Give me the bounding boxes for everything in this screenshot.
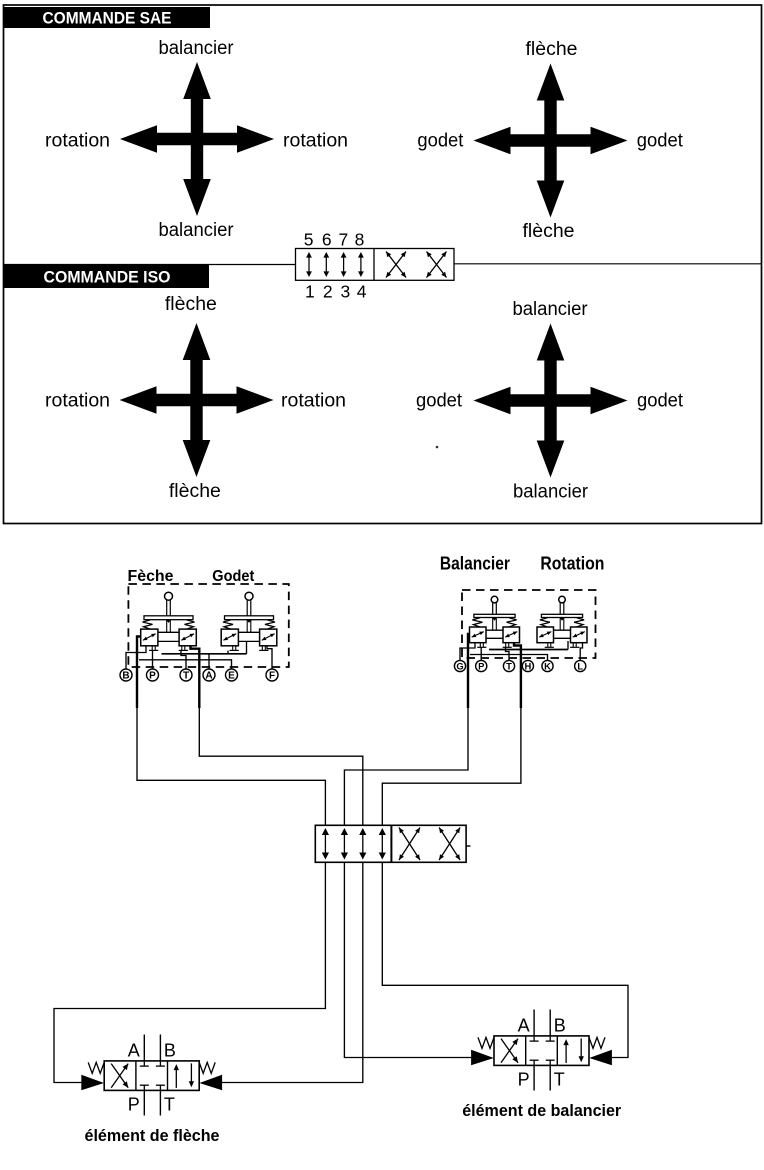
svg-text:godet: godet (637, 131, 684, 152)
crossed flow paths élément de balancier (501, 1039, 518, 1063)
svg-text:B: B (122, 671, 129, 682)
port G right assembly (454, 660, 465, 671)
port line B élément de flèche (159, 1035, 161, 1061)
wire pilot H down thick (514, 643, 521, 708)
joystick plate rotation (541, 614, 582, 620)
port L right assembly (575, 660, 586, 671)
spring left godet (223, 620, 233, 629)
pilot valve box left balancier (470, 627, 487, 647)
swivel block cross 1 (399, 828, 420, 861)
svg-text:P: P (478, 660, 484, 671)
svg-text:6: 6 (322, 230, 332, 250)
svg-text:T: T (183, 671, 189, 682)
svg-text:T: T (164, 1095, 175, 1115)
wire to port F (267, 646, 272, 670)
pilot valve box left flèche (141, 629, 159, 650)
wire to port T right (506, 647, 510, 661)
svg-text:balancier: balancier (159, 38, 235, 59)
port P left assembly (147, 669, 159, 682)
swivel block cross 2 (439, 828, 460, 861)
spring left élément de balancier (478, 1037, 494, 1048)
wire pilot G down thick (468, 634, 470, 708)
wire to port T left (181, 651, 186, 670)
svg-text:Godet: Godet (212, 568, 255, 585)
svg-text:E: E (228, 671, 235, 682)
wire to port E (139, 660, 232, 670)
pilot connector godet (238, 620, 259, 642)
wire bus right assembly 1 (489, 649, 568, 651)
valve body élément de flèche (104, 1061, 199, 1091)
wire to port P right (480, 647, 482, 661)
joystick knob balancier (491, 596, 498, 603)
joystick lever rotation (560, 602, 564, 614)
swivel joint block body (315, 825, 466, 862)
separator wire right (454, 263, 762, 265)
svg-text:L: L (577, 660, 583, 671)
port B left assembly (120, 669, 132, 682)
pilot connector rotation (554, 618, 571, 639)
svg-text:P: P (149, 671, 156, 682)
spring left rotation (540, 618, 550, 628)
port E left assembly (226, 669, 238, 682)
wire bus riser (246, 641, 248, 653)
svg-text:balancier: balancier (513, 482, 589, 503)
svg-text:balancier: balancier (513, 299, 589, 320)
svg-text:godet: godet (637, 391, 684, 412)
wire 4 block to balancier valve right pilot (382, 862, 628, 1057)
separator wire left (4, 264, 296, 266)
joystick knob rotation (559, 596, 566, 603)
svg-text:COMMANDE SAE: COMMANDE SAE (43, 10, 172, 28)
svg-text:F: F (269, 671, 275, 682)
port F left assembly (266, 669, 278, 682)
svg-text:A: A (518, 1016, 530, 1036)
svg-text:3: 3 (341, 282, 351, 302)
joystick plate balancier (474, 614, 515, 620)
spring right balancier (507, 618, 517, 628)
port T left assembly (180, 669, 192, 682)
spring right élément de flèche (199, 1062, 215, 1073)
wire godet stub (227, 651, 229, 654)
pilot valve box left rotation (537, 627, 554, 647)
pilot valve box right flèche (179, 629, 197, 650)
svg-text:7: 7 (339, 230, 349, 250)
spring right élément de balancier (589, 1037, 605, 1048)
pilot connector flèche (158, 620, 179, 642)
svg-text:4: 4 (357, 282, 367, 302)
wire to port A (208, 654, 210, 670)
swivel valve top arrows (306, 252, 364, 277)
joystick plate godet (225, 616, 274, 623)
header bar COMMANDE SAE (3, 7, 210, 28)
svg-text:flèche: flèche (165, 294, 217, 315)
svg-text:1: 1 (305, 282, 315, 302)
pilot valve box left godet (221, 629, 239, 650)
joystick lever flèche (167, 599, 171, 616)
port H right assembly (522, 660, 533, 671)
svg-text:T: T (506, 660, 512, 671)
swivel valve top cross 1 (386, 252, 406, 278)
svg-text:COMMANDE ISO: COMMANDE ISO (44, 268, 171, 286)
swivel block stub (466, 845, 470, 847)
svg-text:flèche: flèche (169, 481, 221, 502)
svg-text:flèche: flèche (523, 221, 575, 242)
svg-text:P: P (518, 1070, 530, 1090)
wire 1 block to flèche valve left pilot (54, 862, 325, 1082)
parallel flow paths élément de flèche (174, 1063, 195, 1088)
svg-text:H: H (525, 660, 532, 671)
wire pilot A down thick (191, 646, 200, 708)
wire 2 block to balancier valve left pilot (344, 862, 471, 1057)
port line P élément de balancier (533, 1065, 535, 1090)
spring left balancier (472, 618, 482, 628)
pilot actuator right élément de flèche (199, 1075, 222, 1090)
swivel joint block arrows (322, 828, 386, 860)
crossed flow paths élément de flèche (111, 1064, 128, 1088)
direction cross ISO right (474, 324, 628, 478)
swivel valve top cross 2 (427, 252, 447, 278)
svg-text:flèche: flèche (526, 39, 578, 60)
wire to port L (580, 643, 582, 661)
header bar COMMANDE ISO (4, 265, 209, 289)
svg-text:5: 5 (304, 230, 314, 250)
direction cross ISO left (120, 323, 274, 477)
svg-text:P: P (128, 1095, 140, 1115)
svg-text:godet: godet (416, 391, 463, 412)
pilot assembly right enclosure (462, 590, 596, 658)
spring right flèche (185, 620, 195, 629)
valve body élément de balancier (494, 1036, 589, 1066)
wire to port K (470, 655, 548, 662)
wire 3 block to flèche valve right pilot (222, 862, 363, 1082)
port line T élément de balancier (549, 1065, 551, 1090)
pin numbers 5 6 7 8 (304, 230, 365, 250)
svg-text:godet: godet (417, 131, 464, 152)
wire pilot B down thick (137, 637, 141, 709)
joystick plate flèche (144, 616, 193, 623)
pilot assembly left enclosure (128, 584, 288, 667)
port P right assembly (476, 660, 487, 671)
svg-text:élément de flèche: élément de flèche (85, 1127, 220, 1145)
pilot actuator right élément de balancier (589, 1050, 612, 1065)
svg-text:Rotation: Rotation (540, 554, 604, 574)
swivel joint valve top body (296, 249, 455, 281)
svg-text:8: 8 (355, 230, 365, 250)
wire to port G (460, 643, 475, 661)
wire bus riser right (567, 641, 569, 650)
svg-text:rotation: rotation (45, 391, 110, 412)
pilot actuator left élément de flèche (81, 1075, 104, 1090)
pilot valve box right balancier (503, 627, 520, 647)
port T right assembly (503, 660, 514, 671)
port line B élément de balancier (549, 1010, 551, 1036)
pilot connector balancier (486, 618, 503, 639)
spring left flèche (143, 620, 153, 629)
blocked centre élément de balancier (530, 1036, 555, 1066)
pin numbers 1 2 3 4 (305, 282, 367, 302)
parallel flow paths élément de balancier (563, 1038, 584, 1063)
wire 1 pilotB to block (137, 706, 325, 825)
svg-text:B: B (554, 1016, 566, 1036)
wire 4 pilotH to block (382, 706, 521, 825)
spring left élément de flèche (88, 1062, 104, 1073)
blocked centre élément de flèche (140, 1061, 165, 1091)
svg-text:G: G (456, 660, 463, 671)
port line P élément de flèche (143, 1090, 145, 1115)
svg-text:balancier: balancier (159, 220, 235, 241)
wire to port P left (152, 651, 154, 670)
joystick knob godet (245, 592, 253, 600)
svg-text:K: K (544, 660, 551, 671)
wire bus left assembly 1 (162, 653, 247, 655)
direction cross SAE left (120, 62, 274, 216)
direction cross SAE right (474, 64, 628, 218)
svg-text:Balancier: Balancier (440, 554, 510, 574)
joystick lever godet (247, 599, 251, 616)
joystick knob flèche (165, 592, 173, 600)
pilot actuator left élément de balancier (471, 1050, 494, 1065)
svg-text:rotation: rotation (45, 131, 110, 152)
wire 3 pilotA to block (199, 706, 362, 825)
spring right rotation (574, 618, 584, 628)
svg-text:A: A (205, 671, 212, 682)
svg-text:A: A (128, 1041, 140, 1061)
svg-text:rotation: rotation (281, 391, 346, 412)
svg-text:élément de balancier: élément de balancier (462, 1102, 622, 1120)
wire 2 pilotG to block (344, 706, 468, 825)
svg-text:rotation: rotation (283, 131, 348, 152)
port K right assembly (542, 660, 553, 671)
port line A élément de flèche (143, 1035, 145, 1061)
panel frame (4, 5, 762, 524)
svg-text:B: B (164, 1041, 176, 1061)
port A left assembly (203, 669, 215, 682)
port line A élément de balancier (533, 1010, 535, 1036)
svg-text:Fèche: Fèche (128, 568, 174, 585)
port line T élément de flèche (159, 1090, 161, 1115)
joystick lever balancier (493, 602, 497, 614)
wire to port B (126, 646, 146, 670)
pilot valve box right godet (259, 629, 277, 650)
pilot valve box right rotation (570, 627, 587, 647)
stray dot (436, 446, 439, 449)
svg-text:T: T (554, 1070, 565, 1090)
svg-text:2: 2 (323, 282, 333, 302)
spring right godet (265, 620, 275, 629)
